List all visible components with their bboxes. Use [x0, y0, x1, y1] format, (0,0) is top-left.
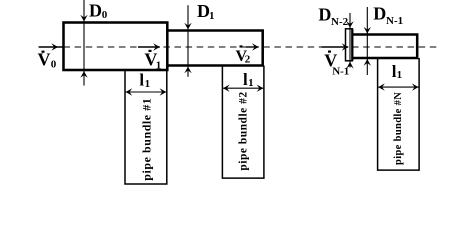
centerline — [64, 46, 439, 48]
pipe section 0 — [64, 23, 168, 71]
svg-text:1: 1 — [248, 77, 254, 89]
flange (pipe N-2 stub) — [346, 29, 353, 61]
arrow V1 — [138, 46, 160, 48]
arrow VN-1 — [322, 46, 349, 48]
label VN-1 — [328, 51, 331, 53]
svg-text:V: V — [38, 50, 51, 70]
svg-text:2: 2 — [245, 53, 251, 65]
dimension line D1 — [187, 5, 189, 77]
svg-text:N-2: N-2 — [331, 16, 349, 28]
dimension line DN-2 — [349, 13, 351, 68]
svg-text:pipe bundle #2: pipe bundle #2 — [238, 91, 250, 170]
arrow V2 — [246, 46, 259, 48]
pipe bundle #2 box — [222, 66, 264, 179]
svg-text:N-1: N-1 — [386, 15, 403, 27]
svg-text:0: 0 — [102, 9, 108, 21]
svg-text:1: 1 — [145, 78, 151, 90]
pipe bundle #1 box — [125, 70, 167, 184]
svg-text:1: 1 — [156, 60, 162, 72]
svg-text:0: 0 — [51, 58, 57, 70]
dimension arrow l1 bundle2 — [223, 87, 263, 89]
svg-text:D: D — [373, 4, 386, 24]
pipe section 1 — [167, 31, 262, 66]
svg-text:1: 1 — [397, 69, 403, 81]
dimension arrow l1 bundle1 — [126, 91, 167, 93]
label V2 — [240, 45, 243, 47]
svg-text:N-1: N-1 — [332, 65, 349, 77]
svg-text:D: D — [318, 5, 331, 25]
svg-text:pipe bundle #1: pipe bundle #1 — [139, 98, 153, 181]
svg-text:pipe bundle #N: pipe bundle #N — [393, 92, 404, 165]
dimension line DN-1 — [366, 7, 368, 75]
svg-text:D: D — [89, 0, 102, 20]
pipe bundle #N box — [378, 58, 420, 170]
svg-text:1: 1 — [209, 10, 215, 22]
label V1 — [149, 50, 152, 52]
arrow V0 — [39, 46, 63, 48]
pipe section N-1 — [352, 35, 417, 59]
dimension line D0 — [83, 0, 85, 86]
label V0 — [42, 51, 45, 53]
dimension arrow l1 bundleN — [378, 86, 418, 88]
